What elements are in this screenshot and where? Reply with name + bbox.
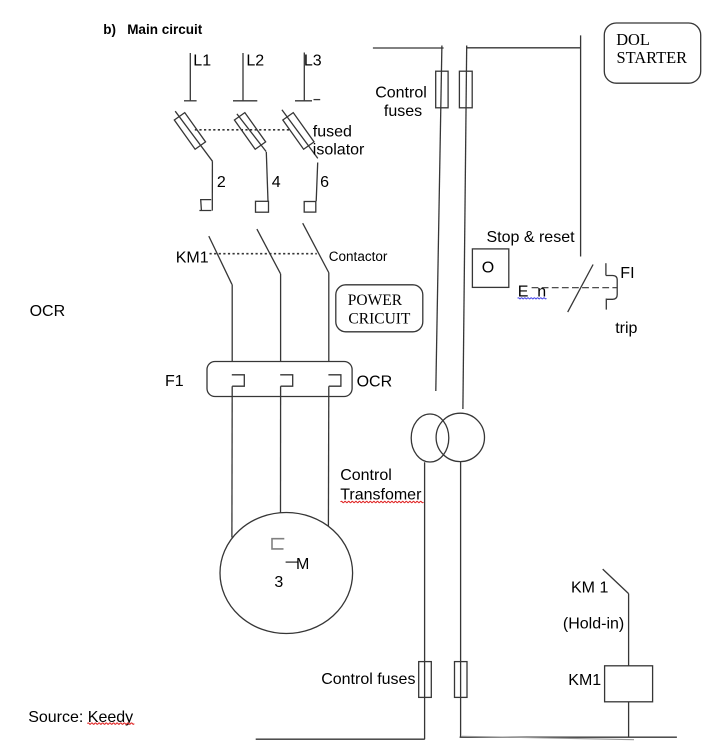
- control fuse right (top): [459, 71, 472, 108]
- control fuse left (bottom): [419, 662, 432, 698]
- motor terminal hook (gray): [272, 539, 284, 549]
- wire pole 1 to overload: [231, 284, 233, 361]
- wire element 1 down to motor: [231, 386, 233, 537]
- Control fuses label top: [375, 84, 427, 119]
- svg-text:POWER: POWER: [348, 292, 403, 309]
- svg-text:FI: FI: [620, 265, 634, 282]
- wire pole 3 below blade: [316, 163, 318, 202]
- svg-text:F1: F1: [165, 373, 184, 390]
- contact hook pole 3: [304, 202, 316, 213]
- svg-text:OCR: OCR: [357, 374, 393, 391]
- fused isolator pole 3 fuse body: [283, 113, 314, 150]
- node L3 terminal bar: [295, 100, 312, 102]
- contactor KM1 pole 1 blade: [209, 236, 232, 284]
- svg-text:isolator: isolator: [313, 142, 365, 159]
- svg-text:Control: Control: [375, 84, 427, 101]
- svg-text:KM 1: KM 1: [571, 579, 608, 596]
- svg-text:b): b): [103, 22, 116, 37]
- svg-text:4: 4: [272, 174, 281, 191]
- svg-text:O: O: [482, 260, 494, 277]
- trip actuator slash: [568, 265, 593, 313]
- svg-text:6: 6: [320, 174, 329, 191]
- svg-text:Contactor: Contactor: [329, 249, 388, 264]
- overload heater element 3: [328, 375, 341, 386]
- svg-text:KM1: KM1: [568, 672, 601, 689]
- svg-text:CRICUIT: CRICUIT: [348, 310, 411, 327]
- svg-text:L1: L1: [193, 53, 211, 70]
- contact hook pole 2: [256, 201, 269, 212]
- E n label: [518, 284, 546, 301]
- svg-text:KM1: KM1: [176, 250, 209, 267]
- svg-text:Main circuit: Main circuit: [127, 22, 203, 37]
- control tap wire A horizontal: [373, 47, 444, 49]
- wire pole 2 to overload: [280, 274, 282, 362]
- control line left vertical: [436, 46, 442, 392]
- wire hold-in to coil: [628, 594, 630, 666]
- svg-text:Control: Control: [340, 467, 392, 484]
- motor body circle: [220, 513, 353, 634]
- POWER CRICUIT text: [348, 292, 411, 328]
- wire pole 1 below blade: [211, 161, 213, 210]
- node L3 terminal bar extra dash: [314, 99, 321, 101]
- fused isolator pole 1 blade: [175, 111, 212, 161]
- svg-text:2: 2: [217, 174, 226, 191]
- wire element 3 down to motor: [327, 386, 329, 526]
- svg-text:(Hold-in): (Hold-in): [563, 616, 624, 633]
- svg-text:STARTER: STARTER: [617, 48, 688, 67]
- svg-text:Stop & reset: Stop & reset: [487, 229, 576, 246]
- isolator mechanical link dotted line: [195, 129, 289, 131]
- overload heater element 1: [232, 375, 245, 386]
- svg-text:Control fuses: Control fuses: [321, 671, 415, 688]
- fused isolator label: [313, 124, 365, 159]
- node L1 supply lead: [189, 53, 191, 100]
- contactor KM1 pole 3 blade: [303, 223, 329, 272]
- overload relay F1 box: [207, 362, 352, 397]
- fused isolator pole 2 blade: [237, 114, 266, 152]
- node L1 terminal bar: [184, 100, 197, 102]
- svg-text:L3: L3: [304, 53, 322, 70]
- control tap wire B horizontal: [467, 47, 581, 49]
- KM1 hold-in contact blade: [603, 569, 629, 594]
- FI contact bracket: [606, 276, 617, 300]
- secondary right wire: [460, 462, 462, 738]
- FI contact top stub: [605, 263, 607, 275]
- control transformer secondary winding: [436, 413, 484, 461]
- trip dashed linkage line: [532, 287, 617, 289]
- wire coil to return: [628, 702, 630, 737]
- control line right vertical: [463, 46, 467, 410]
- fused isolator pole 2 fuse body: [234, 113, 265, 150]
- svg-text:trip: trip: [615, 320, 637, 337]
- contactor KM1 link dotted line: [210, 253, 317, 255]
- svg-text:3: 3: [274, 574, 283, 591]
- overload heater element 2: [280, 375, 293, 386]
- contact hook pole 1: [199, 200, 211, 211]
- stop branch vertical wire: [580, 35, 582, 256]
- secondary left wire: [424, 462, 426, 739]
- svg-text:L2: L2: [246, 53, 264, 70]
- Transfomer red wavy underline: [341, 501, 424, 502]
- POWER CRICUIT box: [336, 285, 423, 332]
- svg-text:M: M: [296, 556, 309, 573]
- wire pole 2 below blade: [266, 152, 268, 201]
- bottom left return wire: [256, 738, 425, 740]
- motor M dash: [286, 561, 298, 563]
- svg-text:fused: fused: [313, 124, 352, 141]
- svg-text:fuses: fuses: [384, 103, 422, 120]
- contactor coil KM1 box: [605, 666, 653, 702]
- E n blue wavy underline: [518, 298, 547, 299]
- DOL STARTER box: [604, 23, 700, 83]
- control fuse right (bottom): [455, 662, 468, 698]
- svg-text:DOL: DOL: [616, 30, 650, 49]
- title text "b) Main circuit": [103, 22, 202, 37]
- node L2 supply lead: [242, 53, 244, 100]
- fused isolator pole 1 fuse body: [174, 113, 205, 150]
- Keedy red wavy underline: [87, 723, 134, 724]
- bottom right return wire gray overlay: [462, 736, 634, 739]
- DOL STARTER text: [616, 30, 687, 67]
- control transformer primary winding: [411, 414, 449, 462]
- bottom right return wire: [460, 736, 677, 738]
- svg-text:OCR: OCR: [30, 303, 66, 320]
- contactor KM1 pole 2 blade: [257, 229, 281, 274]
- FI contact bottom stub: [605, 299, 607, 310]
- Control Transfomer label: [340, 467, 422, 503]
- wire element 2 down to motor: [280, 386, 282, 512]
- node L2 terminal bar: [233, 100, 257, 102]
- node L3 supply lead: [303, 53, 305, 101]
- stop button box: [472, 249, 508, 288]
- control fuse left (top): [436, 71, 448, 108]
- wire pole 3 to overload: [328, 273, 330, 362]
- fused isolator pole 3 blade: [282, 110, 318, 159]
